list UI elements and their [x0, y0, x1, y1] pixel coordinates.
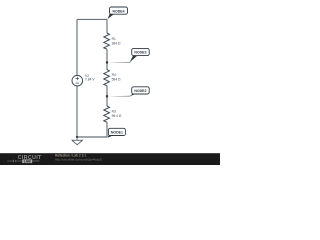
node label NODE3	[107, 48, 149, 62]
svg-text:NODE4: NODE4	[112, 9, 124, 13]
resistor R1 284 ohm	[104, 33, 121, 49]
wire left vertical upper	[76, 19, 78, 75]
wire left vertical lower	[76, 86, 78, 137]
svg-text:R3: R3	[112, 110, 116, 114]
wire top horizontal	[77, 18, 107, 20]
footer logo wire right	[32, 160, 39, 162]
wire bottom horizontal	[77, 136, 107, 138]
voltage source V2	[72, 74, 95, 86]
node label NODE2	[107, 87, 149, 97]
resistor R3 99.4 ohm	[104, 106, 122, 122]
node junction NODE2	[106, 95, 108, 97]
footer bar	[0, 153, 220, 165]
svg-text:NODE3: NODE3	[134, 51, 146, 55]
footer logo wire glyph	[7, 160, 22, 162]
node junction at source/ground	[76, 136, 78, 138]
svg-text:284 Ω: 284 Ω	[112, 41, 121, 45]
svg-text:R4: R4	[112, 73, 116, 77]
svg-text:594 Ω: 594 Ω	[112, 78, 121, 82]
node junction NODE3	[106, 61, 108, 63]
svg-text:7.84 V: 7.84 V	[85, 78, 95, 82]
node label NODE1	[107, 128, 125, 138]
wire between R1 and R4	[106, 49, 108, 69]
svg-text:LAB: LAB	[24, 159, 31, 163]
wire between R4 and R3	[106, 86, 108, 106]
svg-text:NODE2: NODE2	[134, 89, 146, 93]
resistor R4 594 ohm	[104, 70, 121, 86]
wire chain lead top	[106, 19, 108, 33]
svg-text:R1: R1	[112, 37, 116, 41]
node label NODE4	[108, 7, 128, 19]
footer logo LAB box	[22, 159, 32, 163]
svg-text:http://circuitlab.com/cvs82qe4: http://circuitlab.com/cvs82qe4kqd3j	[55, 158, 102, 162]
svg-text:NODE1: NODE1	[111, 131, 123, 135]
ground	[72, 137, 82, 145]
svg-text:99.4 Ω: 99.4 Ω	[112, 114, 122, 118]
wire chain lead bottom	[106, 122, 108, 137]
